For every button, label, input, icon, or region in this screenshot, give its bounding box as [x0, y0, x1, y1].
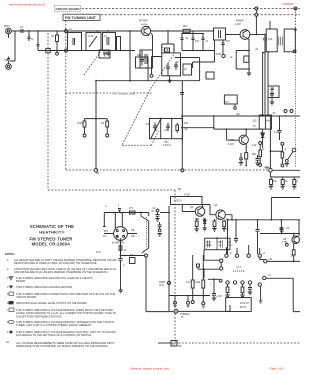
dashed tuning-unit top boundary [66, 92, 152, 94]
svg-text:4-637: 4-637 [235, 24, 242, 26]
transistor Q7 [239, 135, 248, 144]
capacitor C1 on bus [21, 29, 23, 33]
capacitor C11 box [235, 52, 237, 54]
capacitor C12 with ground [271, 88, 275, 90]
svg-text:PIN: PIN [104, 231, 108, 233]
coil bead on x169 [167, 281, 170, 284]
psu cap chain x236 [234, 235, 238, 243]
svg-text:TR7: TR7 [230, 140, 235, 142]
dashed line A horizontal [66, 169, 269, 171]
svg-text:100k: 100k [195, 282, 201, 284]
ground G9b [239, 163, 243, 166]
wire link y151 [270, 150, 282, 152]
svg-text:4-637: 4-637 [228, 144, 235, 146]
junction dots det [270, 115, 286, 117]
resistor R32 horizontal [130, 258, 136, 264]
wire y127.7 to mixer [183, 127, 214, 129]
junction dot bracket [95, 80, 131, 120]
left column wires at 227.5 [227, 220, 229, 254]
svg-text:10.: 10. [6, 340, 10, 344]
terminal circle right corner [294, 7, 297, 10]
detector rail y117 [182, 115, 300, 117]
tuning capacitor box [46, 48, 50, 52]
pot arrow 1 [141, 213, 149, 222]
svg-text:www.freeservicemanuals.info-60: www.freeservicemanuals.info-60 [9, 3, 46, 6]
bottom box [226, 298, 252, 312]
junction dots bus [28, 30, 169, 51]
terminal circle below R1 [56, 52, 59, 55]
IC1 circle [114, 227, 128, 241]
svg-text:CIRCUIT BOARD: CIRCUIT BOARD [56, 7, 81, 11]
resistor R31 below IC1 [119, 246, 122, 251]
tuner section box 3 [103, 33, 116, 51]
wire y62 [193, 62, 215, 68]
svg-text:6B: 6B [178, 189, 181, 191]
dashed vertical x=175 upper [174, 190, 176, 309]
svg-text:1.: 1. [7, 258, 9, 262]
cap drop with ground x255.5 [256, 155, 260, 163]
note icon 3 ground [9, 277, 13, 281]
feedthrough terminal T2 [65, 49, 68, 52]
AGC jack chain 1 [259, 142, 262, 145]
note icon 7 box [9, 308, 14, 312]
svg-text:22.7: 22.7 [228, 245, 233, 247]
svg-text:A QUIET POINT BETWEEN STATIONS: A QUIET POINT BETWEEN STATIONS. [16, 314, 63, 318]
feedthrough terminal T1 [65, 30, 68, 33]
svg-text:TR4: TR4 [164, 142, 169, 144]
long vertical wire x265 [264, 35, 266, 115]
transistor Q6 [216, 210, 226, 220]
tuner coil box L1 [68, 33, 82, 51]
junction dot x182 [181, 118, 183, 140]
svg-text:+ C47: + C47 [216, 296, 223, 298]
ground G14 [195, 229, 199, 232]
dotted vertical right edge [294, 53, 296, 168]
wire y57.5 right [175, 58, 200, 82]
circled pin IC2 p2 [220, 267, 223, 270]
junction dots ic1 rail [113, 212, 142, 214]
rf choke on bus [183, 29, 190, 32]
ground G7 [281, 186, 285, 189]
note icon 6 dark blob [9, 301, 14, 304]
Q8 collector up [294, 220, 299, 237]
svg-text:Page 1 of 1: Page 1 of 1 [270, 367, 284, 371]
wire Q1 drain down [152, 33, 153, 50]
ground G2 [106, 53, 110, 56]
rf network bottom rail [182, 50, 214, 52]
svg-text:180k: 180k [206, 245, 212, 247]
main antenna bus wire [11, 30, 214, 32]
long rail y219.8 [227, 219, 300, 221]
wire Q7 collector/emitter [245, 129, 247, 153]
Q6 output right [225, 215, 232, 220]
dashed stub at diagonal bottom [122, 131, 158, 145]
note icon 4 chassis [9, 286, 13, 289]
tuning capacitor C-1B box [162, 53, 181, 76]
resistor R7 with ground [224, 95, 237, 104]
coupling cap box at 99-110 y50-58 [99, 50, 110, 58]
circuit board dashed outline top line [55, 8, 300, 10]
svg-text:COIL: COIL [159, 285, 165, 287]
ground G4 [270, 102, 274, 105]
IF amp coupling box [268, 86, 279, 98]
jack circles above detector row [284, 110, 287, 113]
wire Q7 base [227, 129, 239, 140]
rf network top rail [182, 31, 204, 36]
wire y279.3 [208, 278, 220, 280]
AGC jack chain 2 [281, 142, 284, 145]
note icon 9 dot [10, 331, 13, 334]
mixer block corner lines [96, 80, 200, 82]
junction dots rf [181, 30, 214, 51]
junction blob on dashed vertical [294, 28, 297, 31]
trimmer diagonal [151, 119, 161, 139]
T1 windings [279, 37, 283, 46]
cap drop left with terminal [84, 119, 86, 121]
IC2 top pin row [226, 248, 228, 255]
left stub down [103, 213, 106, 227]
antenna jack stem [8, 34, 10, 38]
output jack L [174, 301, 177, 304]
resistor R8 [245, 153, 248, 159]
wire from bus to C-1B [162, 31, 174, 53]
pot arrow 2 [142, 248, 149, 253]
tuning gang dashed diagonal D2 [122, 54, 174, 145]
svg-text:TUNED. UNIT THAT IS A STRONG S: TUNED. UNIT THAT IS A STRONG STEREO SIGN… [16, 323, 92, 327]
cap chain x281.4 [279, 220, 283, 234]
svg-text:I C 2: I C 2 [236, 267, 242, 269]
long vertical x169 audio line [168, 206, 170, 311]
cap chain x236 link [235, 220, 237, 235]
ground G16 [212, 229, 216, 232]
transistor Q8 [292, 236, 300, 244]
vertical x148.7 [148, 213, 150, 249]
capacitor C15 [278, 116, 282, 140]
cap inside C-1B [166, 63, 170, 76]
capacitor C2 drop [28, 31, 31, 41]
feedthrough terminals right top [255, 7, 258, 10]
junction dots q2 [256, 34, 266, 36]
svg-text:INDICATES HIGH SIGNAL LEVEL PO: INDICATES HIGH SIGNAL LEVEL POINTS ON TH… [16, 301, 87, 305]
cap C28 [280, 227, 284, 234]
wire x120.7 lower [120, 268, 122, 290]
bottom tuner line [38, 50, 135, 52]
wire Q2 emitter down [248, 39, 251, 52]
svg-text:RF AMP: RF AMP [139, 20, 148, 23]
ground G19 [240, 295, 244, 298]
mixer feed vertical [213, 116, 215, 129]
tuning gang dashed diagonal D1 [84, 51, 101, 75]
svg-text:THIS SYMBOL INDICATES GROUND F: THIS SYMBOL INDICATES GROUND FOIL (GND) … [16, 276, 93, 280]
junction circle on dashed A [94, 169, 98, 173]
de-emphasis drops with grounds [270, 177, 272, 180]
long vertical x146 pot wiper down [145, 257, 147, 312]
svg-text:100k: 100k [216, 54, 222, 56]
svg-text:C14: C14 [268, 39, 273, 41]
dashed vertical x=175 lower [174, 314, 176, 344]
tuner section box C-1A [86, 33, 101, 51]
svg-text:60 Hz: 60 Hz [240, 307, 247, 309]
ground G3 [247, 73, 251, 76]
second chain x159.6 [158, 222, 162, 229]
cap drop with ground x241 [239, 153, 243, 163]
IF transformer T1 right box [284, 29, 295, 52]
test point TP1 [222, 54, 225, 57]
notes block [5, 252, 117, 348]
pin 10 out right [264, 260, 267, 263]
output bus y311.6 [146, 305, 230, 312]
IF transformer T1 left box [266, 29, 277, 52]
junction circle A (MPX feed) [269, 169, 273, 173]
label CIRCUIT BOARD [55, 6, 81, 11]
ground G10 [285, 164, 289, 167]
note icon 5 board box [9, 292, 14, 295]
svg-text:ACCORDING TO THE SETTINGS OF A: ACCORDING TO THE SETTINGS OF A CONTROL O… [16, 333, 92, 337]
svg-text:RFC: RFC [183, 26, 188, 28]
fm tuning unit dashed outline second line [63, 14, 300, 16]
drop q6 left [214, 219, 216, 221]
svg-text:14 K: 14 K [96, 252, 101, 254]
capacitor C30 on rail [118, 209, 121, 213]
terminal block on dashed bottom [171, 341, 177, 347]
bracket y118 [85, 118, 108, 120]
wire y233.5 [260, 233, 300, 235]
branch to terminal [121, 255, 145, 257]
svg-text:10MH: 10MH [159, 282, 166, 284]
wire from pin down right [260, 286, 262, 300]
pot dashed link IC1 [145, 217, 147, 248]
wire below with cap [119, 250, 123, 268]
svg-text:MIXER: MIXER [236, 21, 244, 23]
wire from board edge to Q2 node [255, 10, 257, 35]
svg-text:THIS SYMBOL INDICATES CHASSIS: THIS SYMBOL INDICATES CHASSIS GROUND. [16, 285, 73, 289]
transistor Q2 oscillator [240, 30, 250, 40]
ground G15 [203, 228, 207, 231]
svg-text:HEATHKIT®: HEATHKIT® [39, 230, 65, 235]
capacitor C13 drop [270, 88, 274, 102]
svg-text:STEREO: STEREO [180, 314, 190, 316]
svg-text:FM TUNING UNIT: FM TUNING UNIT [113, 92, 136, 96]
svg-text:FM TUNING UNIT: FM TUNING UNIT [65, 16, 97, 20]
dashed horizontal line B [48, 189, 175, 191]
svg-text:C-1B: C-1B [163, 50, 169, 52]
antenna jack J2 lower [6, 64, 12, 70]
transistor Q1 RF amp [141, 26, 150, 35]
capacitor C5 [181, 38, 184, 51]
svg-text:MODEL CR-1000A: MODEL CR-1000A [32, 242, 71, 247]
svg-text:C39: C39 [217, 242, 222, 244]
output jacks top rail [169, 295, 210, 297]
svg-text:BOARD.: BOARD. [16, 279, 26, 283]
junction dot [120, 255, 122, 257]
cap drop right with terminal [106, 119, 108, 121]
wire drop x38 [37, 31, 39, 51]
svg-text:RESISTORS ARE IN OHMS (K=1000,: RESISTORS ARE IN OHMS (K=1000, M=1,000,0… [14, 261, 97, 265]
diode drop [204, 218, 206, 220]
ground G8 [292, 186, 296, 189]
wire T1 top [269, 21, 271, 29]
svg-text:IN: IN [181, 317, 184, 319]
mixer coil box [183, 64, 192, 75]
vertical wire x130 [129, 31, 131, 81]
svg-text:7B: 7B [172, 344, 175, 346]
svg-text:SCHEMATIC OF THE: SCHEMATIC OF THE [30, 224, 74, 229]
wire x268 [267, 51, 269, 116]
long vertical x96 [95, 81, 97, 169]
IC2 bottom pin row [226, 281, 229, 284]
svg-text:B+ METER: B+ METER [112, 243, 124, 245]
small components near 176,65 [174, 62, 178, 70]
bottom pin drops [227, 284, 229, 287]
output jack R [187, 301, 190, 304]
wire to lower jack [10, 31, 15, 61]
svg-text:2.: 2. [7, 267, 9, 271]
wire x214 down [214, 40, 216, 62]
wire right of junction A [272, 169, 300, 171]
tuning section C-1C box [150, 119, 183, 139]
ground G13 [119, 290, 123, 293]
psu chain x257.5 [256, 220, 260, 254]
transistor Q5 [195, 207, 205, 217]
title block [29, 224, 74, 247]
vertical x270.4 detector out [269, 116, 271, 169]
ground G11 [155, 219, 159, 222]
svg-text:TM: TM [178, 346, 181, 348]
svg-text:1Ω: 1Ω [228, 241, 231, 244]
dashed bottom board line [158, 342, 300, 344]
cap C20 box [136, 57, 149, 68]
emitter/collector drops Q5 [196, 218, 198, 221]
label FM TUNING UNIT box [63, 14, 100, 20]
resistor R30 on rail [130, 211, 136, 214]
svg-text:MPX: MPX [265, 168, 270, 170]
ground G12 [157, 234, 161, 237]
wire from box left down [204, 250, 220, 261]
svg-text:75Ω: 75Ω [4, 59, 9, 62]
ground G6 [269, 186, 273, 189]
capacitor C7 [202, 36, 205, 51]
svg-text:C148: C148 [77, 123, 83, 125]
resistor R1 drop [56, 31, 58, 35]
resistor R5 loop [236, 51, 249, 74]
svg-text:Schematic diagram scanned copy: Schematic diagram scanned copy [130, 367, 170, 371]
ground G17 [222, 229, 226, 232]
wire left components [203, 268, 219, 270]
ground G20 [248, 292, 252, 295]
svg-text:4 4 2 1 A B: 4 4 2 1 A B [233, 270, 245, 273]
junction dots [231, 219, 272, 221]
wire y129 [214, 128, 263, 130]
ground G18 [225, 295, 229, 298]
ground G9 [255, 163, 259, 166]
meter jack M1 [292, 148, 296, 152]
cap + ground chain x214 [212, 279, 216, 298]
ground G21 [212, 298, 216, 301]
psu transformer box [205, 238, 230, 250]
wire y177 [270, 172, 300, 177]
pin out lower right [263, 276, 266, 279]
capacitor C8 [222, 40, 225, 47]
long vertical wire x262.6 [262, 52, 264, 116]
capacitor C10 on vertical [263, 38, 267, 40]
coupling Q5-Q6 [203, 205, 216, 215]
circled pin IC2 p1 [220, 259, 223, 262]
svg-text:4-736: 4-736 [282, 242, 289, 244]
svg-text:46.8: 46.8 [206, 242, 211, 244]
dashed vertical top right corner [294, 9, 296, 51]
left link to terminal [152, 57, 162, 75]
capacitor C6 [192, 36, 195, 51]
svg-text:4-5960B: 4-5960B [282, 2, 293, 6]
cell capacitors [153, 123, 157, 132]
IC1 pin wires [104, 213, 137, 257]
mute switch chain x157-160 [156, 209, 159, 212]
IF output row boxes T2 [259, 115, 271, 129]
svg-text:NOTES:: NOTES: [5, 252, 15, 256]
box below Q1 [140, 50, 153, 68]
svg-text:115V AC: 115V AC [240, 302, 249, 305]
Q8 emitter resistor [285, 243, 288, 246]
svg-text:300Ω: 300Ω [4, 25, 10, 28]
below IC1: B+ label area wiring [116, 247, 118, 249]
wire Q2 base lead [226, 34, 241, 36]
junction dot on box top [216, 237, 218, 239]
detector diode D1 [262, 129, 264, 133]
svg-text:IMPEDANCE VTVM VOLTMETER. NO S: IMPEDANCE VTVM VOLTMETER. NO SIGNAL PRES… [16, 344, 109, 348]
open terminal on dashed vertical [293, 50, 296, 53]
output stage verticals [192, 255, 194, 280]
svg-text:9.: 9. [7, 330, 9, 334]
svg-text:C-1A: C-1A [88, 35, 94, 38]
wire into Q5 base [182, 205, 195, 212]
svg-text:CIRCUIT BOARD.: CIRCUIT BOARD. [16, 295, 37, 299]
wire Q2 collector row [250, 34, 265, 36]
svg-text:4-634: 4-634 [141, 25, 148, 27]
dashed vertical from tuning capacitor down left [47, 33, 49, 190]
antenna jack J1 [6, 28, 12, 34]
dashed tuning-unit left boundary [65, 21, 67, 171]
svg-text:AND ABOVE ARE IN pF UNLESS MAR: AND ABOVE ARE IN pF UNLESS MARKED OTHERW… [14, 270, 109, 274]
vertical x182 to Q5 base [181, 81, 183, 169]
drop q6 right [223, 220, 225, 222]
right box corner to rail [271, 198, 300, 220]
junction [203, 268, 205, 270]
IC1 top rail y212.5 [104, 212, 148, 214]
svg-text:4-307: 4-307 [184, 195, 191, 197]
osc coil box [214, 28, 226, 40]
IF filter block 4-307 [171, 197, 203, 205]
svg-text:4-307-2: 4-307-2 [174, 201, 183, 203]
svg-text:4-637-2: 4-637-2 [163, 145, 172, 147]
mpx in circled terminal [174, 309, 178, 313]
note icon 8 oval [8, 320, 14, 323]
